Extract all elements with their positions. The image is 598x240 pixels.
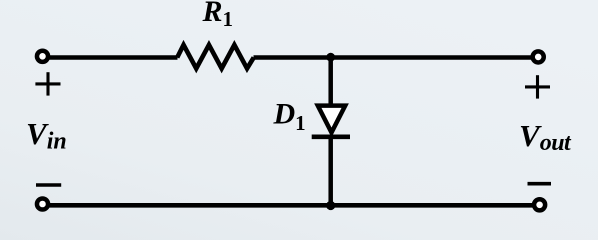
resistor R1 [177, 45, 254, 69]
diode D1 cathode bar [312, 135, 350, 140]
terminal bottom-right [534, 199, 545, 210]
terminal top-left [37, 51, 48, 62]
node bottom junction [326, 201, 335, 210]
minus sign right [528, 182, 552, 186]
minus sign left [36, 183, 61, 187]
wire bottom [48, 203, 534, 208]
wire diode branch upper [328, 58, 333, 107]
terminal top-right [533, 51, 544, 62]
wire top-right segment [254, 55, 533, 60]
terminal bottom-left [37, 198, 48, 209]
wire top-left segment [48, 55, 178, 60]
wire diode branch lower [328, 137, 333, 205]
plus sign right [525, 75, 550, 98]
node top junction [326, 53, 335, 62]
plus sign left [35, 72, 60, 95]
diode D1 [318, 106, 345, 133]
